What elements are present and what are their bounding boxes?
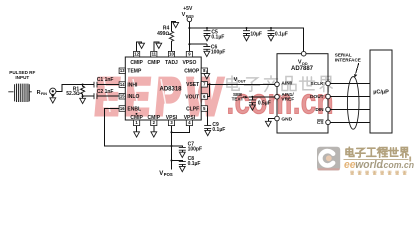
svg-text:DOUT: DOUT <box>310 94 324 100</box>
pin DOUT <box>310 94 330 100</box>
pin 12 CMIP <box>130 51 143 66</box>
ground below R1 <box>80 96 86 103</box>
junction node INHI <box>82 84 84 86</box>
junction ENBL <box>170 145 172 147</box>
junction VREF cap <box>251 96 253 98</box>
junction VSET-VOUT <box>209 83 211 85</box>
label SEE TEXT with arrow <box>232 92 249 101</box>
capacitor C5 <box>204 28 225 41</box>
ground at pin 2 <box>151 126 157 138</box>
svg-text:INPUT: INPUT <box>15 75 29 80</box>
svg-text:V: V <box>159 171 163 177</box>
svg-text:DIN: DIN <box>315 107 324 113</box>
svg-text:100pF: 100pF <box>211 50 225 56</box>
pin 11 CMIP <box>148 51 161 66</box>
pin DIN <box>315 107 330 113</box>
svg-text:CLPF: CLPF <box>186 106 199 112</box>
junction C8 <box>170 159 172 161</box>
svg-text:13: 13 <box>120 68 125 73</box>
wire INLO <box>83 95 94 97</box>
svg-text:CMOP: CMOP <box>184 69 200 75</box>
wire pin 4 to VPSI rail <box>172 126 190 133</box>
label VOUT <box>234 77 247 83</box>
wire DOUT <box>330 96 370 98</box>
resistor R4 <box>157 25 173 51</box>
label VPOS bottom <box>159 171 173 177</box>
svg-text:VSET: VSET <box>186 82 199 88</box>
label SERIAL INTERFACE with arrow <box>335 52 361 77</box>
pin 1 CMIP <box>130 113 143 126</box>
svg-text:ENBL: ENBL <box>127 106 141 112</box>
svg-text:0.5µF: 0.5µF <box>258 100 271 106</box>
junction node INLO <box>82 95 84 97</box>
wire VPSI rail <box>171 126 173 170</box>
svg-text:VPSI: VPSI <box>166 115 178 121</box>
svg-text:VOUT: VOUT <box>185 94 199 100</box>
ground at connector <box>50 95 56 104</box>
pin CS <box>317 120 330 126</box>
wire VOUT to VSET <box>207 84 209 96</box>
svg-text:OUT: OUT <box>238 79 247 83</box>
pin 13 TEMP <box>119 68 142 75</box>
svg-text:VPSI: VPSI <box>184 115 196 121</box>
pin GND <box>275 116 293 122</box>
svg-text:VREF: VREF <box>281 97 294 103</box>
op-amp U1 AD8318 body <box>125 57 201 120</box>
pin 9 VPSO <box>182 51 196 66</box>
wire +5V rail <box>189 28 303 51</box>
ground at pin 12 <box>137 42 145 51</box>
capacitor C8 <box>172 156 201 172</box>
pin 10 TADJ <box>165 51 178 66</box>
capacitor C1 <box>94 77 119 88</box>
svg-text:0.1µF: 0.1µF <box>188 161 201 167</box>
ground at pin 1 <box>134 126 140 138</box>
svg-text:TADJ: TADJ <box>165 60 178 66</box>
svg-text:0.1µF: 0.1µF <box>212 127 225 133</box>
junction C5 <box>206 27 208 29</box>
svg-text:AIN0: AIN0 <box>281 81 292 87</box>
svg-text:INHI: INHI <box>127 83 138 89</box>
microprocessor uC/uP box <box>370 50 392 133</box>
capacitor C9 <box>204 108 225 135</box>
pin 14 INHI <box>119 82 138 89</box>
svg-text:AD7887: AD7887 <box>291 66 314 72</box>
svg-text:INTERFACE: INTERFACE <box>335 58 361 63</box>
wire VPSO pin to VPOS <box>188 22 190 52</box>
capacitor C7 <box>172 141 203 157</box>
ground at pin 8 CMOP <box>204 71 210 79</box>
ground at GND pin <box>265 119 274 127</box>
svg-text:52.3Ω: 52.3Ω <box>66 91 80 97</box>
pin 3 VPSI <box>166 115 178 126</box>
wire SCLK <box>330 82 370 84</box>
svg-text:INLO: INLO <box>127 94 139 100</box>
svg-text:14: 14 <box>120 82 125 87</box>
label RFIN <box>37 90 48 96</box>
svg-text:TEXT: TEXT <box>232 97 244 102</box>
svg-text:TEMP: TEMP <box>127 69 142 75</box>
capacitor 10uF <box>243 28 262 41</box>
svg-text:CMIP: CMIP <box>148 60 161 66</box>
svg-text:0.1µF: 0.1µF <box>275 32 288 38</box>
wire VPSO decoupling branch <box>189 43 206 45</box>
svg-text:15: 15 <box>120 94 125 99</box>
junction pin4 <box>170 131 172 133</box>
serial bundle ellipse <box>347 77 359 130</box>
wire VREF node <box>249 96 275 98</box>
svg-text:100pF: 100pF <box>188 146 202 152</box>
svg-text:12: 12 <box>134 52 139 57</box>
pin 2 CMIP <box>148 115 161 126</box>
svg-text:16: 16 <box>120 106 125 111</box>
pin 16 ENBL <box>119 106 141 113</box>
pin AIN0 <box>275 81 293 87</box>
svg-text:10µF: 10µF <box>250 32 262 38</box>
pin 5 CLPF <box>186 106 207 113</box>
svg-text:world: world <box>355 159 383 171</box>
pin AIN1/VREF <box>275 92 295 103</box>
svg-text:POS: POS <box>186 14 194 18</box>
wire VSET to AIN0 <box>207 83 274 85</box>
svg-text:C2 1nF: C2 1nF <box>97 89 114 95</box>
capacitor C2 <box>94 89 119 99</box>
svg-text:+5V: +5V <box>183 6 193 12</box>
wire CS <box>330 121 370 123</box>
svg-text:11: 11 <box>152 52 157 57</box>
pin 8 CMOP <box>184 68 207 75</box>
svg-text:CMIP: CMIP <box>148 115 161 121</box>
svg-text:µC/µP: µC/µP <box>373 90 389 96</box>
svg-text:0.1µF: 0.1µF <box>211 34 224 40</box>
resistor R1 <box>66 85 84 97</box>
pin 4 VPSI <box>184 115 196 126</box>
junction VPOS rail <box>188 27 190 29</box>
svg-text:CMIP: CMIP <box>130 60 143 66</box>
terminal VDD <box>298 51 308 66</box>
svg-text:GND: GND <box>281 116 292 122</box>
svg-text:DD: DD <box>302 62 308 66</box>
pulsed RF input label <box>9 70 35 80</box>
svg-text:VPSO: VPSO <box>182 60 196 66</box>
connector RFIN <box>50 88 56 94</box>
ground at R4 top <box>172 22 179 29</box>
ADC U2 AD7887 body <box>277 54 328 133</box>
svg-text:ee: ee <box>344 159 356 171</box>
capacitor 0.1uF <box>268 28 288 41</box>
svg-text:AD8318: AD8318 <box>159 87 182 93</box>
svg-text:CMIP: CMIP <box>130 115 143 121</box>
svg-text:499Ω: 499Ω <box>157 31 169 37</box>
pin SCLK <box>311 81 331 87</box>
pulsed RF burst waveform <box>8 84 32 102</box>
svg-text:C1 1nF: C1 1nF <box>97 77 114 83</box>
capacitor 0.5uF <box>249 97 271 110</box>
svg-text:CS: CS <box>317 120 324 126</box>
ground at pin 11 <box>154 42 162 51</box>
pin 6 VOUT <box>185 94 207 101</box>
pin 15 INLO <box>119 93 139 100</box>
svg-text:POS: POS <box>164 172 173 177</box>
capacitor C6 <box>203 44 225 56</box>
supply terminal VPOS +5V <box>182 6 195 22</box>
pin 7 VSET <box>186 82 207 89</box>
wire ENBL to VPSI rail <box>104 109 171 147</box>
junction 0.1uF <box>270 27 272 29</box>
wire DIN <box>330 109 370 111</box>
svg-text:FIN: FIN <box>41 92 47 96</box>
svg-text:10: 10 <box>169 52 174 57</box>
svg-text:SCLK: SCLK <box>311 81 325 87</box>
wire connector to INHI <box>56 85 94 92</box>
junction VPSO branch <box>188 43 190 45</box>
junction 10uF <box>245 27 247 29</box>
